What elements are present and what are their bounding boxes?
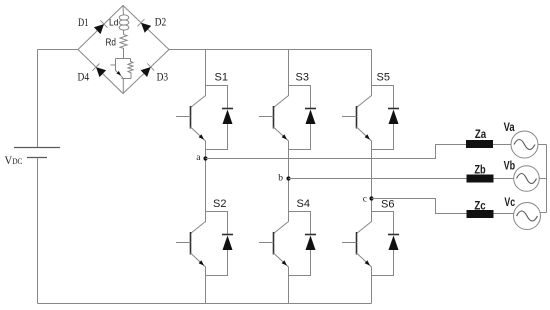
impedance Za: [466, 140, 493, 148]
wire: Va to neutral: [538, 144, 547, 146]
AC source Vc: [514, 203, 541, 230]
wire: leg 3 lower drop: [371, 276, 373, 304]
AC source Vb: [514, 166, 540, 192]
wire: Zc to Vc: [494, 213, 515, 215]
svg-text:Zc: Zc: [474, 200, 486, 212]
svg-text:S1: S1: [215, 72, 228, 84]
clamp bridge diamond wires: [78, 6, 169, 94]
wire: bridge top vertex to inductor: [122, 6, 125, 16]
svg-text:D1: D1: [78, 17, 89, 29]
wire: battery to bottom rail: [37, 158, 39, 304]
wire: Zb to Vb: [494, 178, 514, 180]
svg-text:D4: D4: [78, 72, 90, 84]
diode D2: [141, 23, 151, 33]
IGBT S6 with anti-parallel diode: [342, 212, 399, 276]
svg-text:Za: Za: [475, 129, 487, 141]
svg-text:Zb: Zb: [474, 164, 485, 176]
wire: phase b output: [289, 178, 467, 180]
IGBT S4 with anti-parallel diode: [259, 212, 316, 276]
IGBT S2 with anti-parallel diode: [176, 212, 233, 276]
node b: [286, 176, 290, 180]
wire: leg 1 lower drop: [205, 276, 207, 304]
svg-text:Rd: Rd: [106, 38, 117, 49]
svg-text:Vc: Vc: [504, 197, 515, 209]
DC source VDC (battery): [14, 147, 60, 149]
resistor Rd: [120, 35, 127, 59]
diode D1: [94, 24, 104, 34]
impedance Zc: [467, 210, 494, 218]
wire: battery top to bridge left vertex: [38, 49, 79, 51]
svg-text:S5: S5: [377, 72, 390, 84]
diode D4: [96, 67, 106, 77]
node c: [369, 196, 373, 200]
svg-text:VDC: VDC: [5, 155, 23, 167]
AC source Va: [511, 131, 538, 158]
svg-text:Vb: Vb: [504, 161, 515, 173]
diode D3: [141, 67, 151, 77]
svg-text:S6: S6: [381, 199, 394, 211]
clamp transistor with parallel resistor: [116, 58, 131, 60]
wire: left vertical down to battery: [37, 50, 39, 148]
wire: leg 2 upper drop: [288, 50, 290, 86]
wire: top positive rail: [169, 49, 372, 51]
svg-text:D3: D3: [157, 72, 169, 84]
inductor Ld: [119, 15, 129, 20]
wire: phase c output: [372, 199, 467, 214]
IGBT S1 with anti-parallel diode: [176, 86, 233, 150]
wire: leg 1 upper drop: [205, 50, 207, 86]
svg-text:b: b: [278, 174, 283, 184]
wire: leg 2 lower drop: [288, 276, 290, 304]
wire: Vc to neutral: [540, 212, 547, 214]
node a: [203, 156, 207, 160]
wire: leg 1 middle: [205, 150, 207, 212]
svg-text:Ld: Ld: [109, 18, 119, 28]
svg-text:D2: D2: [155, 17, 167, 29]
impedance Zb: [467, 175, 494, 183]
svg-text:c: c: [363, 195, 367, 205]
svg-text:a: a: [196, 153, 201, 163]
wire: leg 3 upper drop: [371, 50, 373, 86]
svg-text:S4: S4: [297, 198, 310, 210]
wire: phase a output: [206, 145, 467, 159]
wire: clamp bottom to bridge bottom vertex: [122, 79, 124, 94]
wire: Vb to neutral: [539, 178, 546, 180]
wire: Za to Va: [493, 144, 511, 146]
wire: bottom negative rail: [38, 303, 372, 305]
wire: leg 2 middle: [288, 150, 290, 212]
IGBT S5 with anti-parallel diode: [342, 86, 399, 150]
svg-text:S3: S3: [296, 72, 309, 84]
svg-text:Va: Va: [504, 122, 515, 134]
wire: neutral vertical: [546, 145, 548, 213]
svg-text:S2: S2: [213, 198, 226, 210]
IGBT S3 with anti-parallel diode: [259, 86, 316, 150]
wire: leg 3 middle: [371, 150, 373, 212]
